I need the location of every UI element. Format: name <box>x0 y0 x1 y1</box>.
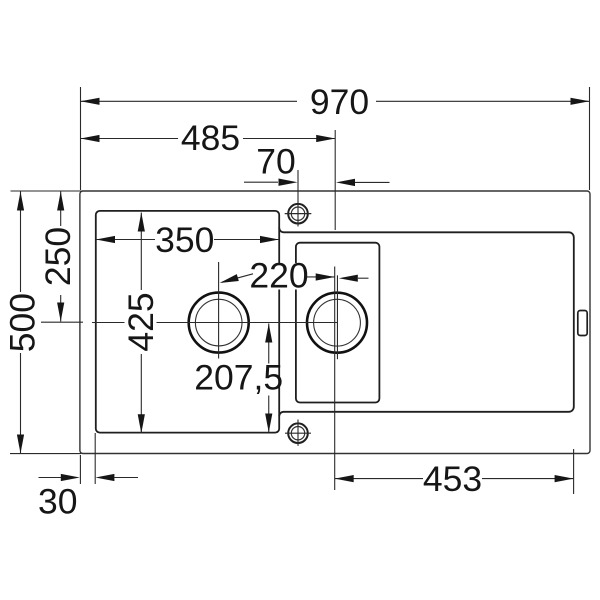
dimension 220 left slanted arrow <box>222 274 253 282</box>
main bowl outline <box>96 211 279 433</box>
svg-text:220: 220 <box>249 256 308 296</box>
dimension 220 right arrow <box>306 276 335 278</box>
main drain centerline vertical <box>218 262 220 359</box>
svg-text:70: 70 <box>256 142 296 182</box>
dimension 350 line + arrows <box>96 239 155 241</box>
svg-text:970: 970 <box>310 82 369 122</box>
dimension 30 extensions <box>79 455 81 484</box>
dimension 425 line + arrows <box>140 213 142 291</box>
dimension 485 line + arrows <box>81 138 179 140</box>
dimension 220 outer-left arrow <box>358 277 369 279</box>
overflow slot <box>578 311 587 336</box>
drainboard outline <box>279 228 574 416</box>
half drain centerline vertical + 453 extension <box>336 275 338 359</box>
bottom tap hole <box>288 423 308 443</box>
dimension 500 bottom extension <box>10 453 81 455</box>
half bowl drain hole <box>307 293 367 353</box>
dimension 250 line + arrows <box>60 192 62 227</box>
dimension 30 arrows <box>39 477 62 479</box>
svg-text:425: 425 <box>121 292 161 351</box>
horizontal centerline <box>41 321 83 323</box>
sink centerline extension <box>334 130 336 230</box>
svg-text:30: 30 <box>38 482 78 522</box>
dimension 453 right extension <box>573 449 575 494</box>
svg-text:350: 350 <box>155 220 214 260</box>
dimension 453 line + arrows <box>335 478 423 480</box>
top tap hole <box>288 204 308 224</box>
dimension 500 line + arrows <box>20 192 22 293</box>
text mask for 220 label <box>254 263 306 290</box>
main drain hole <box>189 293 249 353</box>
svg-text:500: 500 <box>3 293 43 352</box>
dimension 970 extension lines <box>80 87 82 190</box>
svg-text:485: 485 <box>181 118 240 158</box>
dimension 970 line + arrows <box>81 100 298 102</box>
svg-text:453: 453 <box>423 459 482 499</box>
svg-text:250: 250 <box>38 227 78 286</box>
dimension 207,5 line + arrows <box>268 324 270 364</box>
dimension 500/250 top extension <box>11 190 84 192</box>
svg-text:207,5: 207,5 <box>194 358 283 398</box>
half bowl outline <box>296 243 380 403</box>
dimension 70 line + arrows <box>244 181 278 183</box>
sink rim outline <box>80 191 590 454</box>
